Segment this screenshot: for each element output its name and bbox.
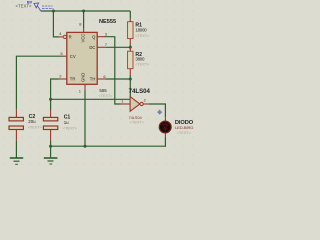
pin 6 stub — [97, 78, 105, 80]
wire pin8 drop — [83, 11, 85, 28]
svg-text:1u: 1u — [64, 120, 69, 125]
wire ground rail bottom — [51, 145, 166, 147]
resistor R1 — [129, 19, 131, 45]
probe readout dashes — [42, 6, 54, 9]
wire R1 bottom to junction — [129, 45, 131, 48]
wire LED bottom to rail — [164, 137, 166, 147]
wire pin4 drop — [53, 11, 58, 37]
LED symbol inside — [163, 122, 168, 132]
wire R2 bottom — [129, 75, 131, 79]
wire rail to ground symbol — [50, 146, 52, 157]
svg-text:74LS04: 74LS04 — [129, 116, 142, 120]
voltage probe BV — [34, 3, 41, 11]
inverter output stub pin 2 — [143, 103, 148, 105]
wire TR-TH link horizontal — [51, 98, 131, 100]
svg-text:<TEXT>: <TEXT> — [135, 34, 150, 38]
node junction rail-pin4 — [52, 10, 55, 13]
wire Q pin3 to inverter input — [105, 37, 121, 104]
node junction R1-R2-DC — [129, 46, 132, 49]
svg-text:<TEXT>: <TEXT> — [98, 94, 113, 98]
pin 1 stub — [84, 84, 86, 90]
diode D1 DIODO LED — [164, 117, 166, 137]
svg-text:<TEXT>: <TEXT> — [177, 131, 192, 135]
pin 2 stub — [59, 78, 67, 80]
wire C1 bottom to rail — [50, 141, 52, 147]
pin 5 stub — [63, 55, 67, 57]
wire GND pin1 down — [84, 91, 86, 147]
pin 8 stub — [83, 28, 85, 33]
wire R1 top — [129, 11, 131, 19]
wire CV pin5 to C2 — [16, 56, 62, 109]
svg-text:CV: CV — [70, 54, 76, 59]
wire C1 top — [50, 99, 52, 109]
wire C2 bottom to ground — [15, 141, 17, 158]
pin 4 bubble — [63, 35, 66, 38]
wire TR pin2 left — [51, 79, 59, 99]
wire VCC rail top — [41, 10, 131, 12]
capacitor C2 — [15, 109, 17, 140]
svg-text:TH: TH — [90, 77, 96, 82]
U1 pin names inside — [69, 34, 97, 82]
inverter U2 74LS04 — [130, 97, 140, 112]
U1 pin numbers — [59, 22, 108, 94]
svg-text:74LS04: 74LS04 — [129, 88, 151, 95]
node junction rail-pin8 — [82, 10, 85, 13]
wire R2 net down to TR net — [129, 79, 131, 98]
pin 4 R stub — [59, 36, 64, 38]
svg-text:<TEXT>: <TEXT> — [16, 4, 32, 9]
wire inverter output to LED — [149, 104, 166, 117]
wire DC pin7 to R1/R2 junction — [105, 46, 130, 48]
svg-text:<TEXT>: <TEXT> — [63, 127, 78, 131]
svg-text:<TEXT>: <TEXT> — [28, 125, 43, 129]
inverter output bubble — [140, 102, 143, 105]
svg-text:555: 555 — [99, 88, 107, 93]
node junction GND-rail — [84, 145, 87, 148]
capacitor C1 — [50, 110, 52, 141]
pin 7 stub — [97, 46, 105, 48]
timer IC U1 NE555 body — [67, 32, 97, 84]
svg-text:18000: 18000 — [135, 27, 147, 32]
ground under C2 — [10, 158, 23, 164]
resistor R2 — [129, 47, 131, 74]
wire TH pin6 to junction — [105, 78, 130, 80]
ground under C1 — [44, 158, 58, 164]
svg-text:20u: 20u — [28, 119, 36, 124]
svg-text:<TEXT>: <TEXT> — [135, 63, 150, 67]
svg-text:NE555: NE555 — [99, 19, 116, 25]
svg-text:TR: TR — [70, 77, 76, 82]
svg-text:LED-BIRG: LED-BIRG — [175, 125, 193, 130]
svg-text:R: R — [69, 35, 72, 40]
node junction TR-C1 — [49, 98, 52, 101]
svg-text:3800: 3800 — [135, 56, 145, 61]
node junction R2-TH — [129, 78, 132, 81]
svg-text:VCC: VCC — [81, 34, 86, 43]
svg-text:GND: GND — [81, 73, 86, 82]
svg-text:<TEXT>: <TEXT> — [130, 121, 145, 125]
svg-text:DC: DC — [89, 45, 95, 50]
node junction C1-rail-ground — [49, 145, 52, 148]
inverter input stub pin 1 — [121, 103, 131, 105]
pin 3 stub — [97, 36, 104, 38]
origin crosshair marker — [157, 110, 162, 115]
